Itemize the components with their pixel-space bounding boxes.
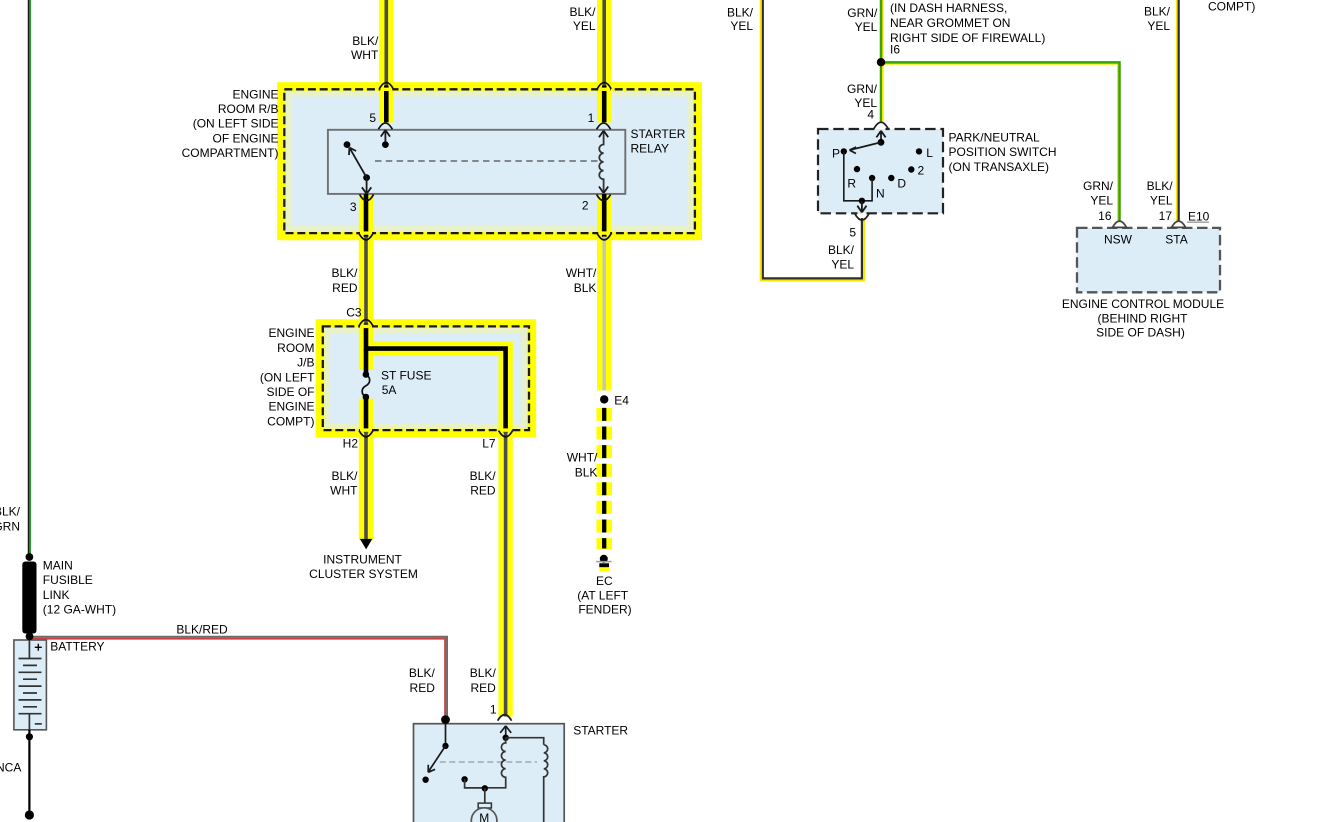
svg-text:2: 2 — [918, 164, 925, 178]
wire highlight: BLK/WHT wire to starter relay pin 5 — [379, 0, 393, 123]
LAYER2b: wire highlight bands — [359, 0, 604, 717]
battery fusible link junction dot top — [26, 553, 34, 561]
svg-text:INSTRUMENT: INSTRUMENT — [323, 552, 402, 566]
wire GRN/YEL I6 junction to ECM pin 16 (yellow stroke) — [881, 64, 1118, 227]
svg-text:C3: C3 — [346, 306, 362, 320]
relay coil top arrowhead — [599, 131, 608, 138]
svg-text:BLK/: BLK/ — [331, 469, 358, 483]
svg-text:NCA: NCA — [0, 760, 21, 774]
engine control module box dashed border — [1077, 228, 1220, 292]
svg-text:D: D — [897, 177, 906, 191]
connector arc relay terminal 5 at inner rect top — [378, 123, 392, 129]
svg-text:3: 3 — [350, 200, 357, 214]
connector arc C3 at J/B box top — [359, 320, 373, 326]
park/neutral switch terminal dot 2 — [908, 166, 914, 172]
svg-text:OF ENGINE: OF ENGINE — [212, 131, 278, 145]
wire core BLK/RED relay pin 3 to C3 — [364, 237, 368, 325]
instrument cluster system arrow — [360, 539, 372, 550]
EC ground black bar — [599, 563, 609, 567]
svg-text:(AT LEFT: (AT LEFT — [577, 588, 629, 602]
wire core BLK/RED L7 to starter pin 1 — [504, 432, 508, 717]
wire core black relay pin 1 inside box — [602, 86, 607, 123]
wire core WHT/BLK relay pin 2 to E4 — [603, 237, 606, 391]
battery top terminal stem — [28, 641, 30, 659]
svg-text:BLK/: BLK/ — [828, 243, 855, 257]
wire core black C3 through J/B to L7 corner — [364, 324, 506, 433]
LAYER1: yellow highlight bands — [284, 89, 695, 430]
relay switch pivot dot — [363, 174, 370, 181]
park/neutral switch pin 4 arrow — [876, 131, 885, 143]
svg-text:BLK/RED: BLK/RED — [176, 623, 228, 637]
svg-text:L: L — [926, 146, 933, 160]
svg-text:BLK: BLK — [575, 465, 598, 479]
starter motor contact dot left — [461, 776, 467, 782]
svg-text:SIDE OF DASH): SIDE OF DASH) — [1096, 326, 1185, 340]
LAYER3: borders — [284, 89, 1220, 762]
svg-text:ENGINE CONTROL MODULE: ENGINE CONTROL MODULE — [1062, 297, 1224, 311]
starter pull-in coil — [485, 738, 506, 788]
connector arc relay terminal 2 at inner rect bottom — [597, 194, 611, 200]
wire BLK/YEL U-shaped left of park/neutral switch (yellow stroke) — [761, 0, 864, 281]
svg-text:RED: RED — [410, 681, 436, 695]
wire highlight: BLK/RED wire L7 to starter pin 1 — [498, 342, 512, 717]
EC ground gray bar — [596, 561, 611, 563]
starter wire to hold-in coil — [506, 738, 544, 745]
starter switch arm with arrowhead — [428, 746, 445, 772]
svg-text:(ON TRANSAXLE): (ON TRANSAXLE) — [949, 160, 1049, 174]
wire BLK/RED battery to starter (dark stroke) — [29, 637, 447, 720]
ground junction dot bottom left — [25, 810, 34, 819]
battery plates — [19, 659, 42, 714]
E10 underline — [1187, 221, 1209, 223]
svg-text:YEL: YEL — [855, 20, 878, 34]
wire highlight: BLK/RED wire relay pin 3 to H2 and instrument cluster — [359, 194, 373, 540]
svg-text:WHT/: WHT/ — [567, 451, 598, 465]
highlight band: engine room J/B box border — [323, 326, 529, 430]
relay pin 5 stub arrow inside inner rect — [381, 130, 390, 145]
wire core black fuse branch down to H2 — [364, 349, 369, 433]
svg-text:RED: RED — [470, 483, 496, 497]
park/neutral position switch box fill — [818, 129, 943, 213]
svg-text:WHT: WHT — [330, 483, 358, 497]
wire BLK/RED battery to starter (red stroke) — [29, 639, 445, 720]
park/neutral switch terminal dot P — [841, 148, 847, 154]
relay switch arm to pin 3 with down arrowhead — [362, 178, 371, 194]
svg-text:ENGINE: ENGINE — [232, 87, 278, 101]
svg-text:E10: E10 — [1188, 209, 1210, 223]
dash gaps at wire crossings of dashed yellow borders — [380, 88, 392, 91]
starter switch feed wire — [445, 724, 447, 746]
engine room R/B box blue fill — [292, 97, 688, 226]
svg-text:J/B: J/B — [297, 356, 314, 370]
svg-text:GRN: GRN — [0, 519, 20, 533]
svg-text:GRN/: GRN/ — [847, 82, 878, 96]
svg-text:WHT: WHT — [351, 48, 379, 62]
BLK/RED to starter junction dot — [441, 715, 450, 724]
wire highlight: dashed WHT/BLK wire E4 to EC ground — [596, 408, 612, 549]
svg-text:P: P — [832, 146, 840, 160]
starter relay internal dashed line — [375, 160, 598, 162]
svg-text:(ON LEFT: (ON LEFT — [260, 370, 315, 384]
svg-text:ROOM: ROOM — [277, 341, 314, 355]
svg-text:BLK/: BLK/ — [0, 505, 21, 519]
svg-text:M: M — [479, 811, 489, 822]
connector arc pin 17 at ECM top — [1172, 221, 1186, 227]
svg-text:EC: EC — [596, 574, 613, 588]
wire highlight: BLK/YEL wire to starter relay pin 1 — [597, 0, 611, 123]
battery below dot — [26, 733, 33, 740]
svg-text:STARTER: STARTER — [631, 127, 686, 141]
relay switch fixed contact dot — [344, 141, 351, 148]
svg-text:4: 4 — [867, 107, 874, 121]
engine room R/B box dashed border — [284, 89, 695, 233]
wire BLK/YEL U-shaped left of park/neutral switch (black stroke) — [762, 0, 862, 279]
svg-text:YEL: YEL — [573, 19, 596, 33]
svg-text:GRN/: GRN/ — [847, 6, 878, 20]
starter internal dashed line — [440, 761, 537, 763]
main fusible link bar — [22, 562, 36, 634]
wire BLK/GRN left column (green stroke) — [29, 0, 31, 556]
connector arc pin 1 at starter box top — [498, 715, 512, 721]
svg-text:YEL: YEL — [1150, 194, 1173, 208]
svg-text:PARK/NEUTRAL: PARK/NEUTRAL — [949, 131, 1040, 145]
svg-text:NSW: NSW — [1104, 233, 1133, 247]
svg-text:CLUSTER SYSTEM: CLUSTER SYSTEM — [309, 567, 418, 581]
starter motor brush rectangle — [478, 803, 491, 808]
svg-text:ENGINE: ENGINE — [268, 400, 314, 414]
svg-text:SIDE OF: SIDE OF — [266, 385, 314, 399]
wire black below battery to ground junction — [28, 730, 30, 815]
svg-text:1: 1 — [588, 111, 595, 125]
svg-text:COMPARTMENT): COMPARTMENT) — [182, 146, 279, 160]
fusible link bottom junction dot — [26, 633, 34, 641]
svg-text:(ON LEFT SIDE: (ON LEFT SIDE — [193, 117, 279, 131]
engine room J/B box dashed border — [323, 326, 529, 430]
wire core black relay pin 2 inside box — [602, 194, 607, 237]
battery plus sign — [35, 644, 42, 651]
engine room R/B box pale green margin — [286, 91, 694, 232]
relay coil — [599, 131, 603, 193]
connector arc pin 4 at park/neutral switch top — [874, 122, 888, 128]
wire core black relay pin 5 inside box — [384, 86, 389, 123]
svg-text:STA: STA — [1165, 233, 1187, 247]
svg-text:BLK/: BLK/ — [331, 266, 358, 280]
starter relay inner rectangle — [328, 130, 625, 194]
svg-text:COMPT): COMPT) — [267, 414, 314, 428]
svg-text:YEL: YEL — [1147, 19, 1170, 33]
svg-text:17: 17 — [1159, 209, 1173, 223]
LAYER2: box fills — [14, 91, 1220, 822]
starter pin 1 up arrow — [500, 726, 511, 738]
svg-text:BLK: BLK — [574, 281, 597, 295]
starter hold-in coil — [544, 745, 548, 822]
wire core BLK/YEL above relay pin 1 — [602, 0, 606, 87]
svg-text:16: 16 — [1098, 209, 1112, 223]
svg-text:BLK/: BLK/ — [409, 666, 436, 680]
I6 junction dot — [877, 58, 885, 66]
fuse bottom dot — [363, 394, 370, 401]
starter motor contact wire — [465, 779, 485, 788]
svg-text:BLK/: BLK/ — [470, 469, 497, 483]
svg-text:LINK: LINK — [43, 588, 70, 602]
connector arc L7 at J/B box bottom — [499, 431, 513, 437]
starter switch pivot dot — [442, 743, 448, 749]
connector arc pin 5 at R/B box top — [379, 83, 393, 89]
wire core BLK/WHT above relay pin 5 — [384, 0, 388, 87]
connector arc pin 16 at ECM top — [1113, 221, 1127, 227]
svg-text:BLK/: BLK/ — [1144, 5, 1171, 19]
connector arc relay terminal 1 at inner rect top — [597, 123, 611, 129]
svg-text:L7: L7 — [482, 436, 496, 450]
svg-text:RIGHT SIDE OF FIREWALL): RIGHT SIDE OF FIREWALL) — [890, 31, 1045, 45]
park/neutral switch pivot dot — [878, 139, 885, 146]
wire GRN/YEL pin 4 (yellow stroke) — [882, 62, 884, 123]
relay switch arm with arrowhead — [349, 148, 367, 178]
park/neutral switch terminal dot N — [869, 175, 875, 181]
EC ground dot — [600, 555, 608, 563]
wire GRN/YEL I6 junction to ECM pin 16 (green stroke) — [881, 62, 1120, 227]
starter motor lead — [484, 788, 486, 803]
park/neutral switch wire P to N junction — [844, 151, 872, 200]
svg-text:1: 1 — [490, 702, 497, 716]
wire BLK/GRN left column (black stroke) — [28, 0, 30, 556]
svg-text:ST FUSE: ST FUSE — [381, 369, 431, 383]
starter switch contact dot — [422, 777, 428, 783]
svg-text:2: 2 — [582, 199, 589, 213]
starter motor junction dot — [482, 785, 488, 791]
starter pin 1 dot — [503, 735, 509, 741]
E4 connector dot — [600, 395, 608, 403]
svg-text:BLK/: BLK/ — [1147, 179, 1174, 193]
fuse top dot — [363, 371, 370, 378]
park/neutral switch junction dot — [859, 198, 865, 204]
svg-text:WHT/: WHT/ — [566, 266, 597, 280]
svg-text:COMPT): COMPT) — [1208, 0, 1255, 14]
starter box fill and border — [414, 724, 565, 822]
dash gap at park/neutral pin 4 crossing — [877, 127, 886, 129]
connector arc relay terminal 3 at inner rect bottom — [360, 194, 374, 200]
svg-text:ROOM R/B: ROOM R/B — [218, 102, 279, 116]
svg-text:R: R — [847, 177, 856, 191]
connector arc pin 1 at R/B box top — [597, 83, 611, 89]
svg-text:BLK/: BLK/ — [352, 34, 379, 48]
engine room J/B box pale green margin — [324, 328, 527, 429]
wire GRN/YEL from top to I6 junction (yellow stroke) — [882, 0, 884, 62]
park/neutral position switch box dashed border — [818, 129, 943, 213]
svg-text:BLK/: BLK/ — [470, 666, 497, 680]
svg-text:MAIN: MAIN — [43, 559, 73, 573]
starter motor circle — [471, 808, 497, 822]
battery bottom terminal stem — [28, 714, 30, 730]
wire dashed black core E4 to EC ground — [602, 408, 606, 549]
wire core BLK/WHT H2 to instrument cluster arrow — [364, 432, 368, 539]
svg-text:BLK/: BLK/ — [569, 5, 596, 19]
svg-text:RELAY: RELAY — [631, 142, 669, 156]
relay pin 5 stub dot — [382, 141, 389, 148]
battery box fill and border — [14, 640, 47, 730]
wire BLK/YEL right column to ECM pin 17 (yellow stroke) — [1176, 0, 1178, 227]
park/neutral switch terminal dot L — [916, 148, 922, 154]
svg-text:E4: E4 — [614, 393, 629, 407]
park/neutral switch pin 5 down arrow — [857, 201, 866, 213]
relay coil bottom arrowhead — [599, 187, 608, 194]
svg-text:(12 GA-WHT): (12 GA-WHT) — [43, 603, 116, 617]
svg-text:5A: 5A — [382, 383, 397, 397]
svg-text:H2: H2 — [343, 436, 359, 450]
svg-text:(BEHIND RIGHT: (BEHIND RIGHT — [1098, 311, 1189, 325]
wire GRN/YEL from top to I6 junction (green stroke) — [880, 0, 883, 62]
svg-text:FUSIBLE: FUSIBLE — [43, 573, 93, 587]
EC ground yellow bar — [599, 567, 609, 571]
connector arc H2 at J/B box bottom — [359, 431, 373, 437]
svg-text:POSITION SWITCH: POSITION SWITCH — [949, 145, 1057, 159]
highlight band: engine room R/B box border — [284, 89, 695, 233]
battery minus sign — [35, 723, 42, 725]
svg-text:YEL: YEL — [730, 19, 753, 33]
engine control module box fill — [1077, 228, 1220, 292]
dash gap at park/neutral pin 5 crossing — [857, 212, 866, 214]
connector arc pin 3 at R/B box bottom — [359, 234, 373, 240]
svg-text:RED: RED — [470, 681, 496, 695]
wire core black relay pin 3 inside box — [364, 194, 369, 237]
svg-text:YEL: YEL — [831, 258, 854, 272]
svg-text:N: N — [876, 186, 885, 200]
wire highlight: J/B internal wire C3 to L7 horizontal — [359, 341, 513, 355]
park/neutral switch terminal dot R — [854, 166, 860, 172]
park/neutral switch arm with arrowhead toward P — [850, 142, 882, 153]
svg-text:BLK/: BLK/ — [727, 5, 754, 19]
svg-text:STARTER: STARTER — [573, 724, 628, 738]
park/neutral switch terminal dot D — [888, 175, 894, 181]
svg-text:YEL: YEL — [1090, 194, 1113, 208]
connector arc pin 2 at R/B box bottom — [597, 234, 611, 240]
connector arc pin 5 at park/neutral switch bottom — [855, 214, 869, 220]
svg-text:FENDER): FENDER) — [578, 603, 631, 617]
fuse ST FUSE symbol — [362, 375, 370, 398]
svg-text:5: 5 — [369, 111, 376, 125]
engine room J/B box blue fill — [330, 334, 522, 424]
svg-text:ENGINE: ENGINE — [268, 326, 314, 340]
wire highlight: WHT/BLK wire relay pin 2 to E4 — [597, 194, 611, 391]
svg-text:5: 5 — [849, 225, 856, 239]
svg-text:RED: RED — [332, 281, 358, 295]
svg-text:GRN/: GRN/ — [1083, 179, 1114, 193]
svg-text:NEAR GROMMET ON: NEAR GROMMET ON — [890, 16, 1010, 30]
svg-text:BATTERY: BATTERY — [50, 640, 104, 654]
svg-text:I6: I6 — [890, 42, 900, 56]
svg-text:(IN DASH HARNESS,: (IN DASH HARNESS, — [890, 1, 1007, 15]
wire GRN/YEL I6 to park/neutral switch pin 4 — [880, 62, 883, 123]
wire BLK/YEL right column to ECM pin 17 (black stroke) — [1178, 0, 1180, 227]
